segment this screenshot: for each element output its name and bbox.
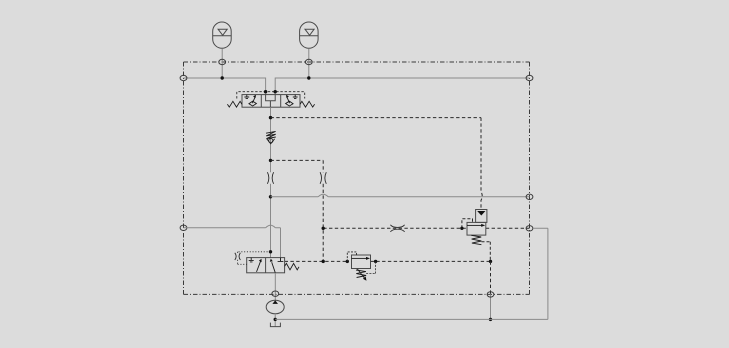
- reducing valve V3 body: [352, 255, 371, 269]
- junction dot x322 y228: [322, 227, 325, 230]
- wire drain x490 solid lower: [490, 294, 492, 319]
- reducing valve V3 internal flow line + arrow: [352, 257, 371, 260]
- check valve CV1 seat: [267, 139, 275, 144]
- wire V1 outlet down (upper part): [270, 107, 272, 172]
- junction dot above V2: [269, 250, 272, 253]
- accumulator ACC1: [213, 22, 232, 48]
- relief valve V4 pilot staple: [462, 219, 473, 229]
- relief valve V4 upper box triangle: [477, 211, 485, 216]
- tank symbol: [270, 323, 280, 327]
- wire ACC2 stem: [308, 49, 310, 79]
- accumulator ACC2: [300, 22, 319, 48]
- node circle right end supply: [526, 75, 533, 80]
- valve V2 unloader body: [247, 258, 285, 273]
- junction dot x322 y261: [322, 260, 325, 263]
- valve V1 left box vent T: [244, 95, 249, 99]
- reducing valve V3 spring: [356, 270, 366, 278]
- wire pilot/drain bus left (dash-dot): [183, 62, 185, 294]
- relief valve V4 lower box: [467, 222, 486, 235]
- node circle x490 on bottom bus: [487, 292, 494, 297]
- valve V2 left box vent T: [249, 258, 254, 262]
- pilot line dashed to relief valve (horizontal + vertical with jog): [271, 118, 483, 210]
- valve V2 left box arrow: [257, 259, 262, 272]
- wire V2 outlet to pump: [274, 273, 276, 300]
- relief valve V4 drain dashed: [482, 242, 491, 262]
- junction dot x490 y319: [489, 318, 492, 321]
- valve V1 left box arrow: [252, 95, 256, 103]
- node circle on bus at ACC2: [305, 59, 312, 64]
- junction dot x347 y261: [346, 260, 349, 263]
- junction dot tank line: [274, 318, 277, 321]
- valve V1 shuttle/select valve body: [242, 95, 300, 108]
- wire pump to tank: [274, 314, 276, 327]
- junction dot relief pilot x461: [460, 227, 463, 230]
- wire mid output line y196 with hop at x322: [271, 194, 530, 197]
- node circle right end y196: [526, 194, 533, 199]
- reducing valve V3 feedback loop: [366, 261, 376, 273]
- junction dot x375 y261: [374, 260, 377, 263]
- wire left line y228 with hop at x270, corner down x280: [184, 225, 281, 261]
- wire supply line right P2: [275, 78, 529, 95]
- orifice on solid line x270: [267, 172, 273, 184]
- pilot line dashed relief right to node G: [486, 227, 530, 229]
- wire pilot/drain bus top (dash-dot): [184, 61, 530, 63]
- valve V2 right box arrow: [270, 259, 276, 273]
- junction dot V1 riser right: [274, 90, 277, 93]
- junction dot V1 riser left: [264, 90, 267, 93]
- valve V1 pilot dashed box: [237, 92, 305, 99]
- pilot line dashed y261 from V3 to x490: [371, 260, 491, 262]
- valve V1 right box vent T: [293, 95, 298, 99]
- orifice on dashed line x322: [320, 172, 326, 184]
- valve V1 left box poppet diamond: [249, 101, 257, 106]
- wire pilot/drain bus right (dash-dot): [529, 62, 531, 294]
- relief valve V4 internal flow line + arrow: [467, 224, 485, 227]
- junction dot x490 y261: [489, 260, 492, 263]
- pilot line dashed y261 from V2 to V3: [285, 260, 348, 262]
- reducing valve V3 pilot staple: [347, 252, 356, 262]
- wire tank return bottom right: [275, 228, 548, 319]
- node circle left y228: [180, 225, 187, 230]
- relief valve V4 spring: [471, 235, 481, 244]
- wire supply line left P1: [184, 78, 266, 95]
- valve V2 right box blocked port bar: [278, 258, 284, 262]
- node circle pump line on bottom bus: [272, 291, 279, 296]
- pilot line dashed y158 to x322 and down: [271, 160, 324, 261]
- junction dot ACC1-supply: [221, 76, 224, 79]
- relief valve V4 upper box: [476, 210, 487, 223]
- node circle G x529 y228: [526, 226, 533, 231]
- junction dot pilot takeoff y117: [269, 116, 272, 119]
- wire drain x490 dashed upper: [490, 261, 492, 294]
- valve V1 right box poppet diamond: [286, 101, 294, 106]
- wire pilot/drain bus bottom (dash-dot): [184, 293, 530, 295]
- pump P: [266, 300, 284, 314]
- valve V1 right box arrow: [286, 95, 290, 103]
- junction dot x270 y196: [269, 195, 272, 198]
- node circle on bus at ACC1: [219, 59, 226, 64]
- junction dot pilot takeoff y158: [269, 159, 272, 162]
- wire ACC1 stem: [221, 49, 223, 79]
- node circle left end supply: [180, 75, 187, 80]
- wire V1 outlet down (lower part, to V2): [270, 184, 272, 258]
- valve V2 spring right: [285, 263, 299, 269]
- check valve CV1 ball: [269, 139, 273, 143]
- junction dot ACC2-supply: [307, 76, 310, 79]
- pilot line dashed y228 from x322 to relief valve: [323, 227, 467, 229]
- valve V1 left spring: [227, 101, 242, 107]
- check valve CV1 spring: [266, 131, 276, 138]
- valve V2 pilot dotted loop with orifice: [238, 252, 271, 264]
- orifice on V2 pilot: [235, 253, 241, 260]
- throttle symbol on pilot line: [390, 225, 404, 232]
- reducing valve V3 adjust arrow: [357, 269, 366, 281]
- valve V1 right spring: [300, 101, 315, 107]
- valve V1 center position U-pocket: [266, 95, 276, 108]
